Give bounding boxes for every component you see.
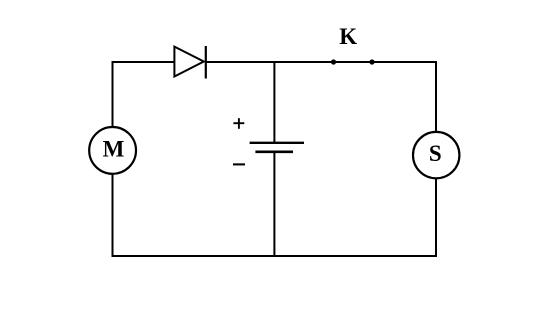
- svg-text:S: S: [429, 141, 442, 166]
- svg-text:M: M: [103, 136, 125, 161]
- svg-text:K: K: [339, 24, 357, 49]
